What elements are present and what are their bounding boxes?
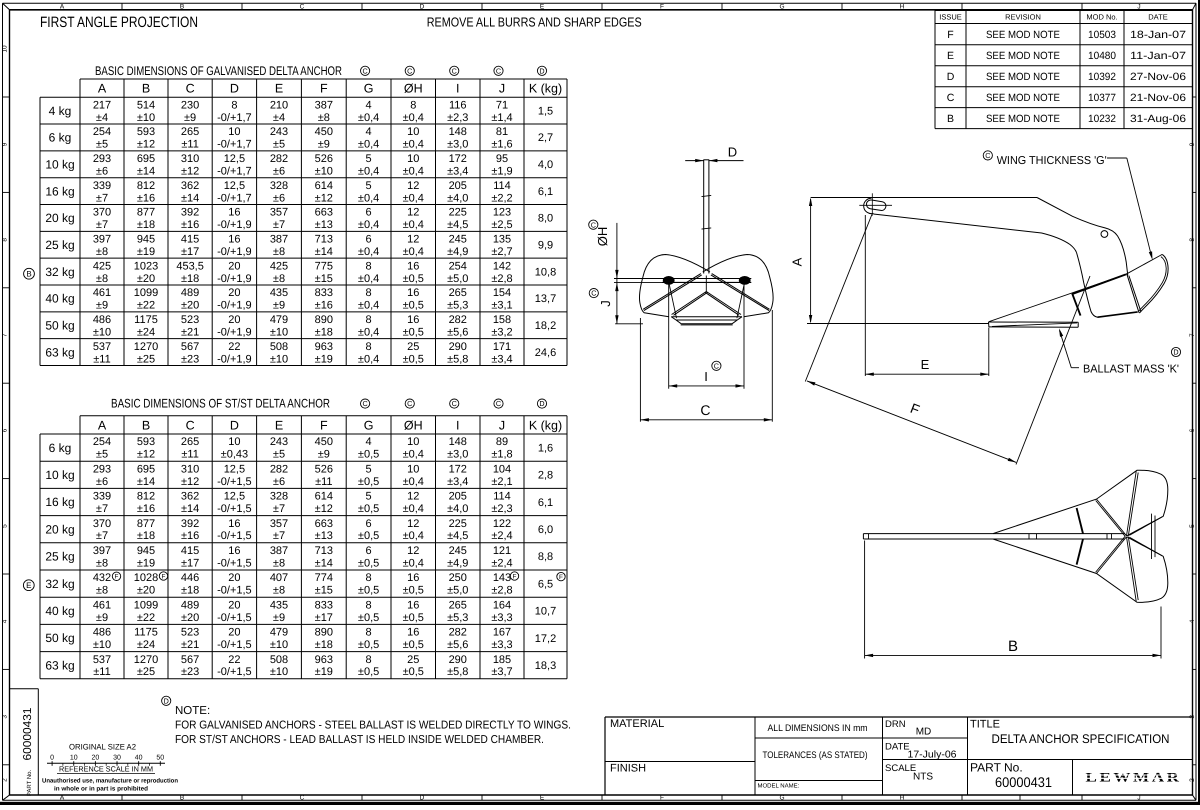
- svg-text:104: 104: [493, 463, 511, 475]
- svg-text:185: 185: [493, 654, 511, 666]
- svg-text:±9: ±9: [273, 612, 285, 624]
- svg-text:J: J: [499, 82, 505, 96]
- svg-text:±12: ±12: [315, 503, 333, 515]
- svg-text:20 kg: 20 kg: [45, 211, 74, 225]
- svg-text:310: 310: [181, 153, 199, 165]
- svg-text:K (kg): K (kg): [529, 418, 562, 432]
- svg-text:PART No.: PART No.: [26, 769, 33, 796]
- svg-text:12: 12: [407, 207, 419, 219]
- svg-text:±14: ±14: [181, 503, 199, 515]
- svg-text:±7: ±7: [273, 503, 285, 515]
- svg-text:G: G: [364, 418, 374, 432]
- svg-text:±1,4: ±1,4: [491, 112, 512, 124]
- svg-text:-0/+1,5: -0/+1,5: [217, 585, 252, 597]
- svg-text:A: A: [60, 794, 65, 801]
- fluke outline (plan): [993, 470, 1168, 536]
- svg-text:254: 254: [93, 436, 111, 448]
- svg-text:567: 567: [181, 654, 199, 666]
- svg-text:172: 172: [449, 153, 467, 165]
- svg-text:±3,0: ±3,0: [447, 449, 468, 461]
- svg-text:C: C: [714, 361, 719, 370]
- svg-text:663: 663: [315, 207, 333, 219]
- svg-text:40 kg: 40 kg: [45, 292, 74, 306]
- svg-text:877: 877: [137, 518, 155, 530]
- svg-text:-0/+1,5: -0/+1,5: [217, 476, 252, 488]
- svg-text:-0/+1,7: -0/+1,7: [217, 165, 252, 177]
- revision marks circled F in 32 kg row: [112, 572, 120, 580]
- svg-text:397: 397: [93, 545, 111, 557]
- svg-text:±0,4: ±0,4: [358, 300, 379, 312]
- svg-text:±0,5: ±0,5: [358, 476, 379, 488]
- svg-text:265: 265: [449, 599, 467, 611]
- svg-text:8: 8: [1189, 238, 1196, 242]
- svg-text:±0,4: ±0,4: [403, 557, 424, 569]
- svg-text:I: I: [456, 82, 459, 96]
- svg-text:±0,5: ±0,5: [403, 639, 424, 651]
- svg-text:508: 508: [270, 341, 288, 353]
- svg-text:5: 5: [366, 180, 372, 192]
- svg-text:135: 135: [493, 234, 511, 246]
- svg-text:±0,5: ±0,5: [403, 273, 424, 285]
- svg-text:MD: MD: [916, 727, 932, 738]
- svg-text:60000431: 60000431: [22, 708, 34, 761]
- svg-text:±0,4: ±0,4: [358, 112, 379, 124]
- svg-text:±2,3: ±2,3: [491, 503, 512, 515]
- svg-text:945: 945: [137, 234, 155, 246]
- svg-text:6,1: 6,1: [538, 186, 553, 198]
- svg-text:486: 486: [93, 314, 111, 326]
- svg-text:5: 5: [2, 524, 9, 528]
- svg-text:435: 435: [270, 599, 288, 611]
- svg-text:±22: ±22: [137, 300, 155, 312]
- svg-text:32 kg: 32 kg: [45, 577, 74, 591]
- svg-text:-0/+1,9: -0/+1,9: [217, 273, 252, 285]
- svg-text:REFERENCE SCALE IN MM: REFERENCE SCALE IN MM: [59, 765, 153, 774]
- svg-text:±9: ±9: [184, 112, 196, 124]
- svg-text:H: H: [900, 794, 905, 801]
- svg-text:±6: ±6: [273, 476, 285, 488]
- svg-text:12,5: 12,5: [224, 153, 245, 165]
- svg-text:±16: ±16: [137, 192, 155, 204]
- svg-text:250: 250: [449, 572, 467, 584]
- svg-text:±8: ±8: [318, 112, 330, 124]
- svg-text:±0,4: ±0,4: [358, 326, 379, 338]
- svg-text:27-Nov-06: 27-Nov-06: [1130, 71, 1186, 83]
- svg-text:ALL DIMENSIONS IN mm: ALL DIMENSIONS IN mm: [768, 723, 868, 734]
- svg-text:812: 812: [137, 180, 155, 192]
- svg-text:±8: ±8: [273, 246, 285, 258]
- svg-text:-0/+1,5: -0/+1,5: [217, 557, 252, 569]
- revision table: [934, 11, 936, 129]
- svg-text:425: 425: [270, 260, 288, 272]
- svg-text:±7: ±7: [96, 503, 108, 515]
- svg-text:±10: ±10: [93, 639, 111, 651]
- svg-text:J: J: [1137, 794, 1140, 801]
- svg-text:±0,5: ±0,5: [358, 666, 379, 678]
- svg-text:±5,8: ±5,8: [447, 353, 468, 365]
- svg-text:±0,5: ±0,5: [403, 326, 424, 338]
- svg-text:8: 8: [366, 314, 372, 326]
- wing thickness G label: [983, 151, 992, 160]
- svg-text:J: J: [598, 300, 613, 307]
- svg-text:614: 614: [315, 180, 333, 192]
- svg-text:293: 293: [93, 153, 111, 165]
- svg-text:20: 20: [228, 314, 240, 326]
- svg-text:362: 362: [181, 180, 199, 192]
- svg-text:6: 6: [366, 545, 372, 557]
- svg-text:±2,8: ±2,8: [491, 585, 512, 597]
- svg-text:SEE MOD NOTE: SEE MOD NOTE: [986, 113, 1060, 125]
- svg-text:BALLAST MASS 'K': BALLAST MASS 'K': [1083, 364, 1179, 376]
- svg-text:±18: ±18: [315, 639, 333, 651]
- svg-text:158: 158: [493, 314, 511, 326]
- svg-text:REVISION: REVISION: [1005, 13, 1041, 22]
- svg-text:2: 2: [2, 778, 9, 782]
- svg-text:282: 282: [270, 153, 288, 165]
- svg-text:1099: 1099: [134, 287, 158, 299]
- svg-text:±11: ±11: [181, 139, 198, 151]
- svg-text:5: 5: [366, 491, 372, 503]
- svg-text:D: D: [164, 696, 169, 705]
- svg-text:8,8: 8,8: [538, 551, 553, 563]
- center struts (front): [672, 292, 707, 315]
- svg-text:C: C: [407, 399, 412, 408]
- svg-text:16: 16: [407, 287, 419, 299]
- svg-text:±23: ±23: [181, 666, 199, 678]
- svg-text:±2,4: ±2,4: [491, 530, 512, 542]
- svg-text:1023: 1023: [134, 260, 158, 272]
- svg-text:4: 4: [366, 436, 372, 448]
- svg-text:±0,43: ±0,43: [221, 449, 248, 461]
- svg-text:154: 154: [493, 287, 511, 299]
- svg-text:±7: ±7: [96, 530, 108, 542]
- svg-text:10480: 10480: [1088, 50, 1116, 62]
- svg-text:DRN: DRN: [885, 719, 906, 730]
- svg-text:1,6: 1,6: [538, 442, 553, 454]
- svg-text:±11: ±11: [181, 449, 198, 461]
- svg-text:114: 114: [493, 491, 511, 503]
- svg-text:±19: ±19: [137, 557, 155, 569]
- svg-text:±0,5: ±0,5: [358, 585, 379, 597]
- svg-text:D: D: [1173, 348, 1178, 357]
- svg-text:±3,2: ±3,2: [491, 326, 512, 338]
- svg-text:812: 812: [137, 491, 155, 503]
- svg-text:142: 142: [493, 260, 511, 272]
- svg-text:±0,5: ±0,5: [358, 530, 379, 542]
- svg-text:±3,4: ±3,4: [491, 353, 512, 365]
- svg-text:±17: ±17: [181, 246, 199, 258]
- svg-text:7: 7: [2, 333, 9, 337]
- svg-text:8,0: 8,0: [538, 213, 553, 225]
- svg-text:453,5: 453,5: [176, 260, 204, 272]
- svg-text:ØH: ØH: [404, 82, 423, 96]
- zone mark circled B: [24, 268, 35, 279]
- svg-text:A: A: [98, 418, 107, 432]
- svg-text:12: 12: [407, 545, 419, 557]
- svg-text:±5,0: ±5,0: [447, 273, 468, 285]
- svg-text:C: C: [985, 151, 990, 160]
- svg-text:63 kg: 63 kg: [45, 345, 74, 359]
- svg-text:10377: 10377: [1088, 92, 1116, 104]
- svg-text:ØH: ØH: [595, 227, 610, 247]
- svg-text:6 kg: 6 kg: [49, 131, 72, 145]
- svg-text:±7: ±7: [96, 192, 108, 204]
- svg-text:567: 567: [181, 341, 199, 353]
- svg-text:450: 450: [315, 126, 333, 138]
- svg-text:±0,4: ±0,4: [403, 192, 424, 204]
- svg-text:±10: ±10: [137, 112, 155, 124]
- svg-text:6 kg: 6 kg: [49, 441, 72, 455]
- svg-text:-0/+1,5: -0/+1,5: [217, 666, 252, 678]
- svg-text:387: 387: [270, 545, 288, 557]
- dimension D lines: [685, 160, 703, 162]
- svg-text:±14: ±14: [137, 476, 155, 488]
- svg-text:±5: ±5: [96, 139, 108, 151]
- svg-text:225: 225: [449, 207, 467, 219]
- svg-text:±10: ±10: [270, 666, 288, 678]
- svg-text:TITLE: TITLE: [970, 719, 1000, 731]
- svg-text:10 kg: 10 kg: [45, 468, 74, 482]
- svg-text:±10: ±10: [270, 326, 288, 338]
- svg-text:6: 6: [366, 207, 372, 219]
- svg-text:12: 12: [407, 518, 419, 530]
- svg-text:±12: ±12: [137, 139, 155, 151]
- svg-text:18,3: 18,3: [535, 660, 556, 672]
- svg-text:±2,4: ±2,4: [491, 557, 512, 569]
- svg-text:20: 20: [228, 260, 240, 272]
- svg-text:6: 6: [1189, 428, 1196, 432]
- svg-text:±20: ±20: [181, 300, 199, 312]
- svg-text:±18: ±18: [181, 585, 199, 597]
- svg-text:±6: ±6: [96, 476, 108, 488]
- svg-text:±6: ±6: [273, 192, 285, 204]
- title block: [605, 716, 1193, 718]
- svg-text:±13: ±13: [315, 530, 333, 542]
- svg-text:1028: 1028: [134, 572, 158, 584]
- svg-text:±1,9: ±1,9: [491, 165, 512, 177]
- svg-text:486: 486: [93, 627, 111, 639]
- svg-text:B: B: [142, 418, 150, 432]
- svg-text:±0,4: ±0,4: [403, 476, 424, 488]
- svg-text:415: 415: [181, 234, 199, 246]
- svg-text:945: 945: [137, 545, 155, 557]
- svg-text:171: 171: [493, 341, 511, 353]
- svg-text:-0/+1,5: -0/+1,5: [217, 530, 252, 542]
- svg-text:435: 435: [270, 287, 288, 299]
- svg-text:SEE MOD NOTE: SEE MOD NOTE: [986, 71, 1060, 83]
- svg-text:±21: ±21: [181, 326, 199, 338]
- svg-text:±15: ±15: [315, 273, 333, 285]
- svg-text:FIRST ANGLE PROJECTION: FIRST ANGLE PROJECTION: [40, 14, 198, 31]
- svg-text:E: E: [275, 418, 283, 432]
- svg-text:290: 290: [449, 341, 467, 353]
- svg-text:148: 148: [449, 126, 467, 138]
- svg-text:±0,4: ±0,4: [403, 165, 424, 177]
- svg-text:±13: ±13: [315, 219, 333, 231]
- svg-text:ISSUE: ISSUE: [939, 13, 962, 22]
- fold edges (plan): [1127, 471, 1137, 536]
- note: circled D: [162, 696, 171, 705]
- svg-text:663: 663: [315, 518, 333, 530]
- svg-text:143: 143: [493, 572, 511, 584]
- svg-text:10392: 10392: [1088, 71, 1116, 83]
- svg-text:16 kg: 16 kg: [45, 495, 74, 509]
- svg-text:±23: ±23: [181, 353, 199, 365]
- svg-text:9: 9: [2, 142, 9, 146]
- svg-text:Unauthorised use, manufacture: Unauthorised use, manufacture or reprodu…: [42, 778, 178, 785]
- svg-text:339: 339: [93, 180, 111, 192]
- svg-text:230: 230: [181, 99, 199, 111]
- svg-text:BASIC DIMENSIONS OF GALVANISED: BASIC DIMENSIONS OF GALVANISED DELTA ANC…: [95, 64, 342, 78]
- svg-text:10232: 10232: [1088, 113, 1116, 125]
- svg-text:4: 4: [1189, 619, 1196, 623]
- svg-text:461: 461: [93, 287, 111, 299]
- svg-text:9,9: 9,9: [538, 240, 553, 252]
- svg-text:22: 22: [228, 341, 240, 353]
- svg-text:328: 328: [270, 180, 288, 192]
- svg-text:±5,3: ±5,3: [447, 612, 468, 624]
- svg-text:C: C: [496, 399, 501, 408]
- svg-text:-0/+1,7: -0/+1,7: [217, 139, 252, 151]
- fluke rear heel (side): [1077, 253, 1098, 318]
- svg-text:SEE MOD NOTE: SEE MOD NOTE: [986, 29, 1060, 41]
- svg-text:5: 5: [1189, 524, 1196, 528]
- svg-text:2: 2: [1189, 778, 1196, 782]
- svg-text:10: 10: [70, 754, 78, 761]
- svg-text:F: F: [559, 574, 563, 581]
- svg-text:±19: ±19: [315, 666, 333, 678]
- svg-text:K (kg): K (kg): [529, 82, 562, 96]
- svg-text:172: 172: [449, 463, 467, 475]
- svg-text:±11: ±11: [93, 353, 110, 365]
- svg-text:17-July-06: 17-July-06: [908, 750, 957, 761]
- dimension F (side): [805, 213, 872, 382]
- svg-text:265: 265: [181, 126, 199, 138]
- svg-text:±0,5: ±0,5: [403, 585, 424, 597]
- svg-text:8: 8: [366, 572, 372, 584]
- svg-text:245: 245: [449, 234, 467, 246]
- svg-text:407: 407: [270, 572, 288, 584]
- svg-text:-0/+1,7: -0/+1,7: [217, 112, 252, 124]
- dimension phi-H (front): [589, 220, 598, 229]
- svg-text:G: G: [779, 4, 784, 11]
- svg-text:B: B: [180, 794, 184, 801]
- svg-text:12,5: 12,5: [224, 180, 245, 192]
- svg-text:10: 10: [228, 436, 240, 448]
- svg-text:71: 71: [496, 99, 508, 111]
- svg-text:±0,4: ±0,4: [358, 165, 379, 177]
- svg-text:8: 8: [410, 99, 416, 111]
- svg-text:E: E: [540, 794, 545, 801]
- svg-text:17,2: 17,2: [535, 633, 556, 645]
- svg-text:16: 16: [228, 545, 240, 557]
- svg-text:1099: 1099: [134, 599, 158, 611]
- svg-text:C: C: [186, 418, 195, 432]
- svg-text:PART No.: PART No.: [970, 761, 1023, 775]
- svg-text:16 kg: 16 kg: [45, 184, 74, 198]
- svg-text:WING THICKNESS 'G': WING THICKNESS 'G': [997, 155, 1107, 167]
- svg-text:4: 4: [366, 99, 372, 111]
- svg-text:225: 225: [449, 518, 467, 530]
- svg-text:I: I: [456, 418, 459, 432]
- svg-text:265: 265: [181, 436, 199, 448]
- svg-text:C: C: [700, 402, 710, 418]
- svg-text:±17: ±17: [181, 557, 199, 569]
- svg-text:±4,9: ±4,9: [447, 246, 468, 258]
- svg-text:TOLERANCES (AS STATED): TOLERANCES (AS STATED): [763, 750, 868, 761]
- svg-text:116: 116: [449, 99, 467, 111]
- svg-text:8: 8: [2, 238, 9, 242]
- svg-text:±6: ±6: [96, 165, 108, 177]
- svg-text:±5: ±5: [273, 139, 285, 151]
- svg-text:±7: ±7: [96, 219, 108, 231]
- svg-text:±3,0: ±3,0: [447, 139, 468, 151]
- svg-text:±10: ±10: [93, 326, 111, 338]
- svg-text:50 kg: 50 kg: [45, 318, 74, 332]
- svg-text:D: D: [539, 399, 544, 408]
- svg-text:-0/+1,5: -0/+1,5: [217, 639, 252, 651]
- svg-text:±0,4: ±0,4: [403, 139, 424, 151]
- svg-text:B: B: [142, 82, 150, 96]
- svg-text:8: 8: [366, 341, 372, 353]
- svg-text:122: 122: [493, 518, 511, 530]
- svg-text:397: 397: [93, 234, 111, 246]
- svg-text:526: 526: [315, 463, 333, 475]
- svg-text:±18: ±18: [137, 530, 155, 542]
- svg-text:±19: ±19: [137, 246, 155, 258]
- svg-text:D: D: [230, 82, 239, 96]
- svg-text:833: 833: [315, 599, 333, 611]
- svg-text:-0/+1,5: -0/+1,5: [217, 503, 252, 515]
- svg-text:±10: ±10: [270, 639, 288, 651]
- svg-text:FINISH: FINISH: [610, 763, 646, 775]
- svg-text:C: C: [496, 66, 501, 75]
- svg-text:30: 30: [113, 754, 121, 761]
- svg-text:±8: ±8: [96, 273, 108, 285]
- svg-text:±9: ±9: [318, 449, 330, 461]
- svg-text:±22: ±22: [137, 612, 155, 624]
- svg-text:±2,2: ±2,2: [491, 192, 512, 204]
- rear chamber plate (plan): [1151, 514, 1153, 559]
- svg-text:±11: ±11: [315, 476, 332, 488]
- svg-text:2,7: 2,7: [538, 132, 553, 144]
- svg-text:523: 523: [181, 627, 199, 639]
- svg-text:-0/+1,7: -0/+1,7: [217, 192, 252, 204]
- svg-text:370: 370: [93, 207, 111, 219]
- svg-text:6,1: 6,1: [538, 497, 553, 509]
- svg-text:B: B: [947, 113, 954, 125]
- svg-text:16: 16: [407, 572, 419, 584]
- svg-text:H: H: [900, 4, 905, 11]
- svg-text:243: 243: [270, 436, 288, 448]
- svg-text:8: 8: [366, 287, 372, 299]
- svg-text:±1,8: ±1,8: [491, 449, 512, 461]
- svg-text:±25: ±25: [137, 353, 155, 365]
- svg-text:890: 890: [315, 627, 333, 639]
- svg-text:±0,4: ±0,4: [358, 192, 379, 204]
- svg-text:8: 8: [366, 599, 372, 611]
- svg-text:-0/+1,9: -0/+1,9: [217, 326, 252, 338]
- svg-text:±25: ±25: [137, 666, 155, 678]
- svg-text:±1,6: ±1,6: [491, 139, 512, 151]
- svg-text:±0,5: ±0,5: [403, 353, 424, 365]
- wing left (front): [643, 255, 710, 278]
- svg-text:210: 210: [270, 99, 288, 111]
- svg-text:833: 833: [315, 287, 333, 299]
- svg-text:16: 16: [228, 207, 240, 219]
- svg-text:±15: ±15: [315, 585, 333, 597]
- svg-text:ØH: ØH: [404, 418, 423, 432]
